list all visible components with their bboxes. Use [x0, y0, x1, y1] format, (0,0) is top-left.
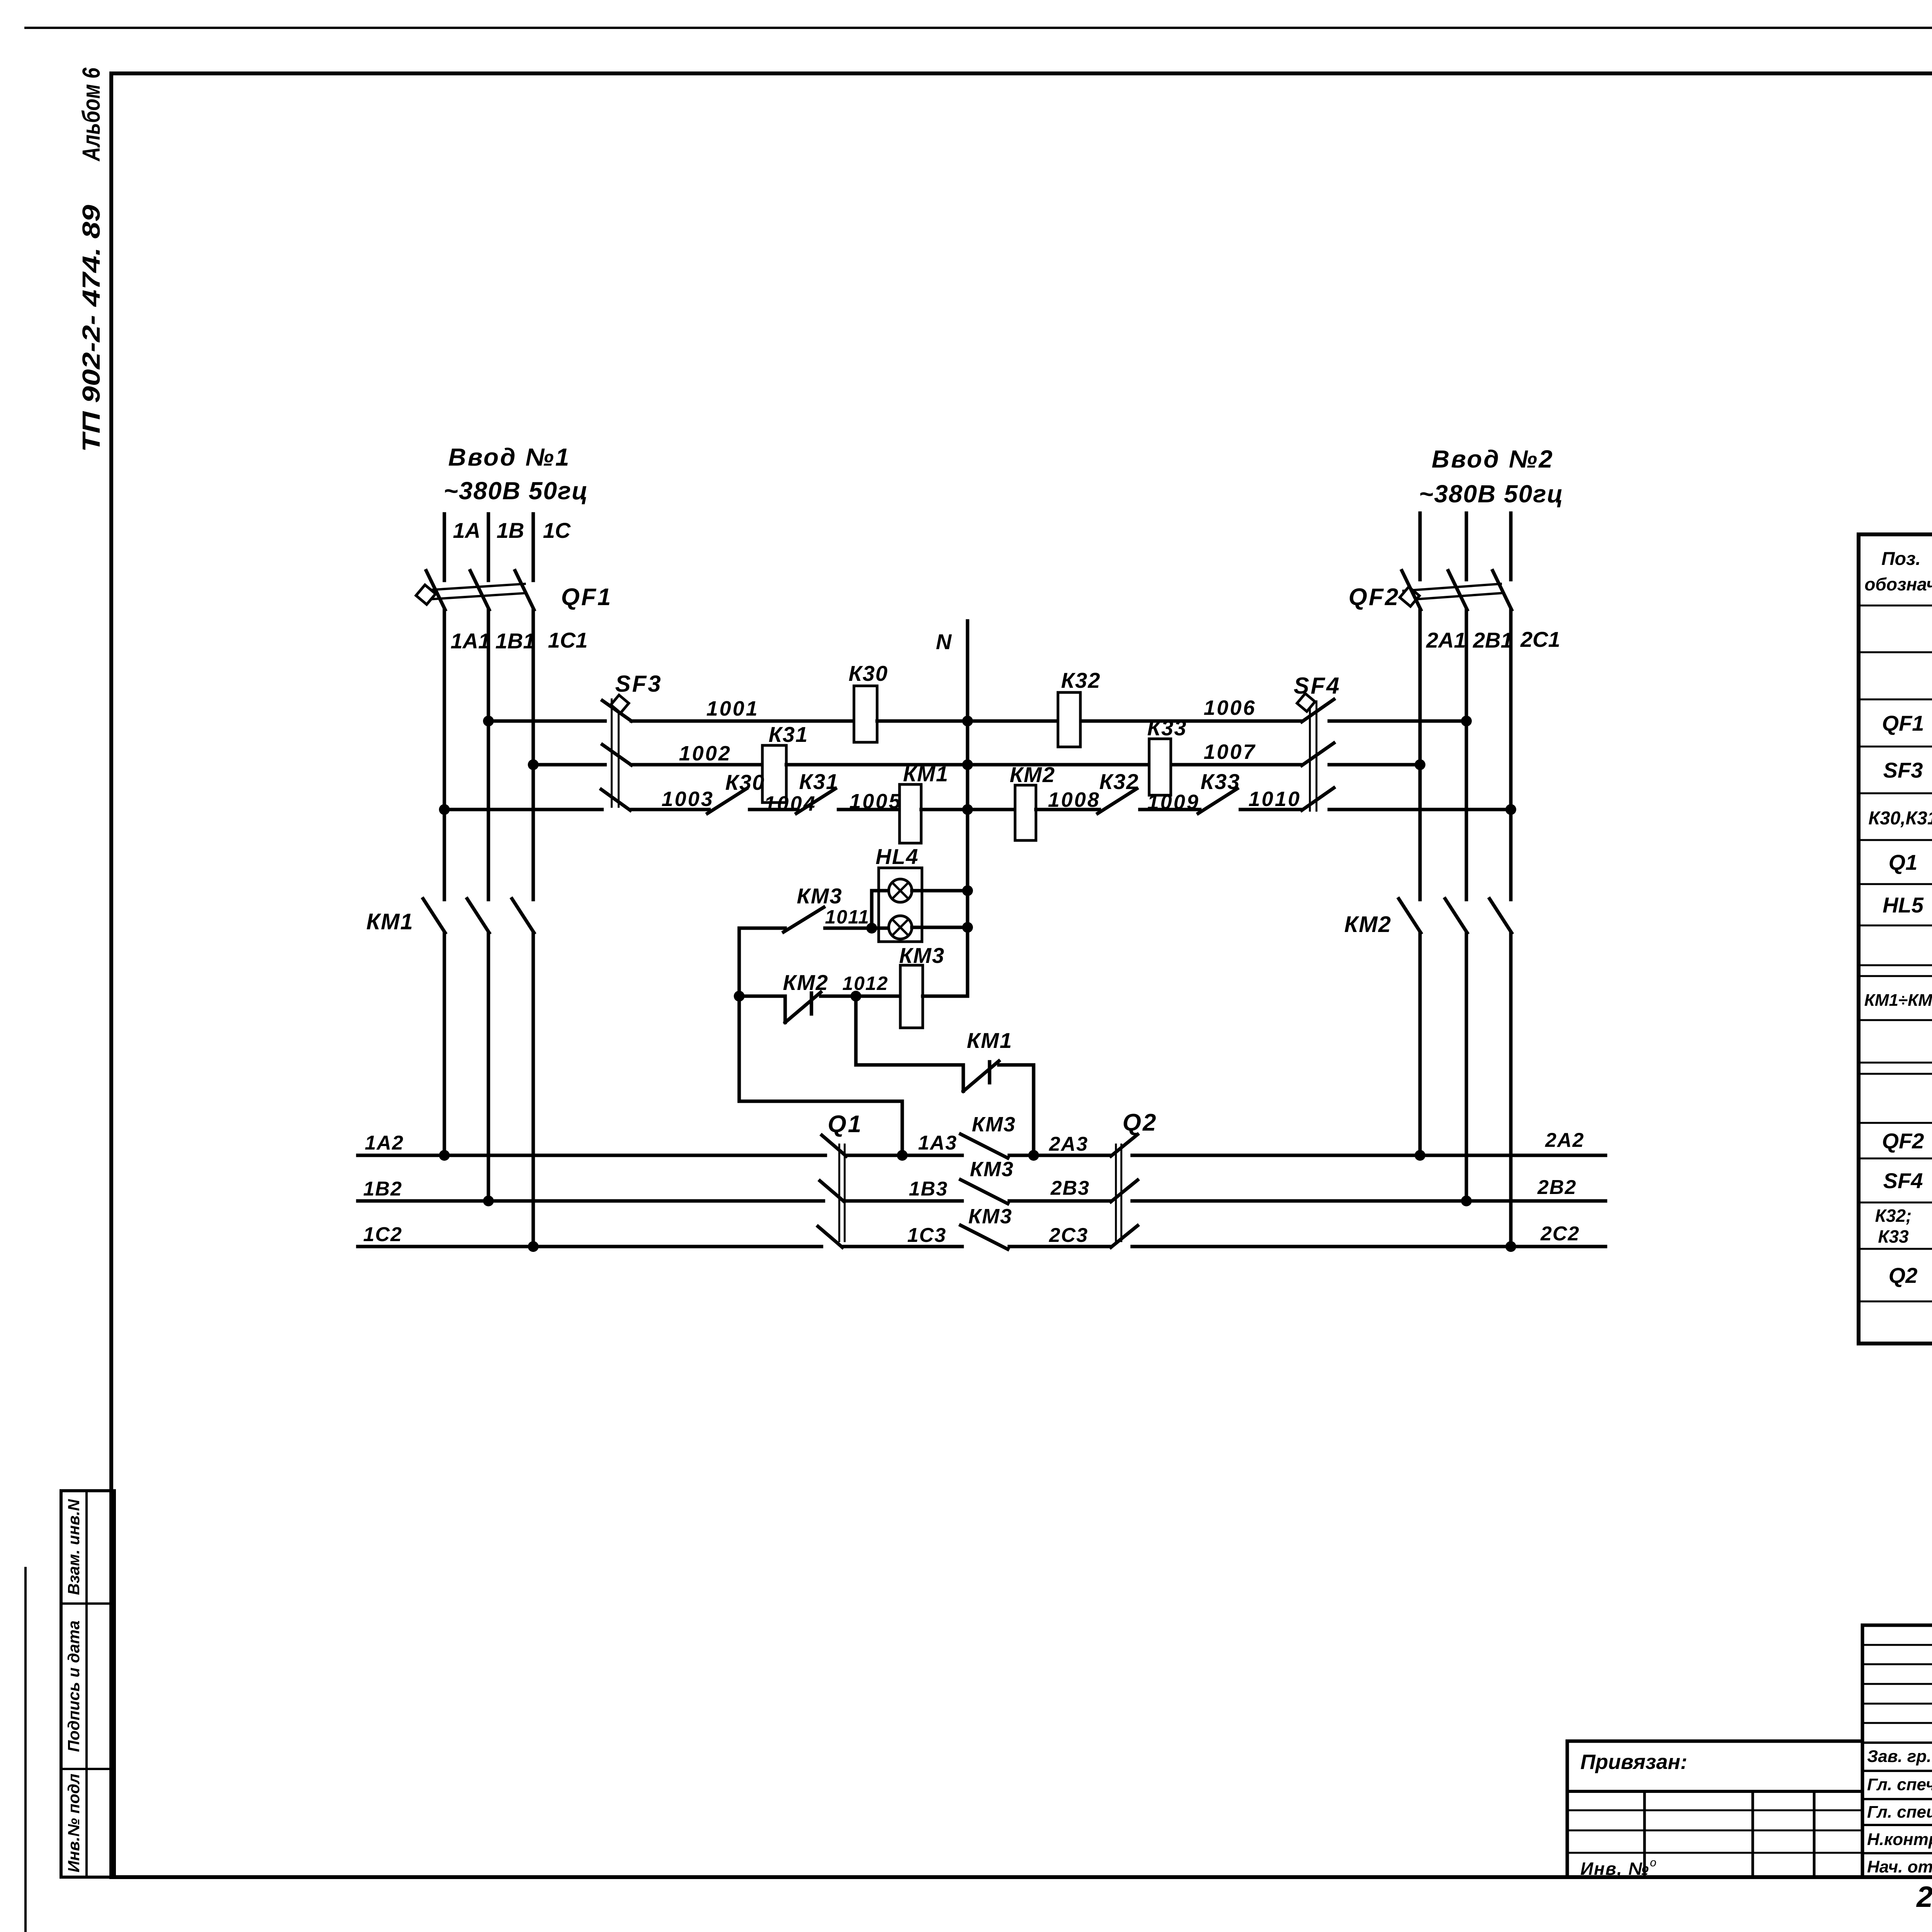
svg-text:КМ1÷КМ3: КМ1÷КМ3 — [1864, 991, 1932, 1010]
svg-text:КМ3: КМ3 — [899, 943, 945, 968]
svg-text:1В3: 1В3 — [909, 1178, 948, 1200]
svg-text:1А: 1А — [453, 518, 481, 543]
svg-text:2С3: 2С3 — [1049, 1224, 1088, 1247]
svg-text:N: N — [936, 629, 952, 654]
svg-text:Q2: Q2 — [1122, 1109, 1158, 1136]
svg-text:2С1: 2С1 — [1520, 627, 1560, 651]
svg-text:2В1: 2В1 — [1473, 628, 1513, 652]
svg-text:1002: 1002 — [679, 742, 731, 765]
svg-text:1А1: 1А1 — [451, 629, 490, 653]
svg-text:~380В 50гц: ~380В 50гц — [1419, 480, 1564, 508]
svg-text:Зав. гр.: Зав. гр. — [1867, 1747, 1931, 1766]
svg-text:1011: 1011 — [825, 906, 870, 928]
svg-text:Взам. инв.N: Взам. инв.N — [65, 1498, 83, 1595]
svg-text:1В1: 1В1 — [495, 629, 535, 653]
svg-text:1010: 1010 — [1248, 787, 1301, 811]
svg-text:1003: 1003 — [662, 787, 714, 811]
svg-text:К33: К33 — [1201, 769, 1240, 794]
svg-text:Ввод №1: Ввод №1 — [448, 443, 571, 471]
svg-text:1С: 1С — [543, 518, 571, 543]
svg-text:КМ2: КМ2 — [783, 970, 828, 995]
svg-text:К30: К30 — [849, 661, 888, 685]
svg-text:Привязан:: Привязан: — [1580, 1750, 1687, 1774]
svg-text:Поз.: Поз. — [1881, 549, 1921, 569]
svg-text:К33: К33 — [1878, 1226, 1909, 1247]
svg-text:Н.контр.: Н.контр. — [1867, 1830, 1932, 1849]
svg-text:К32: К32 — [1061, 668, 1101, 692]
svg-text:Инв.№ подл: Инв.№ подл — [65, 1774, 83, 1872]
svg-text:КМ3: КМ3 — [970, 1158, 1014, 1181]
svg-text:КМ2: КМ2 — [1344, 912, 1391, 937]
svg-text:К32;: К32; — [1875, 1206, 1912, 1226]
svg-text:ТП 902-2- 474. 89: ТП 902-2- 474. 89 — [77, 204, 105, 452]
svg-text:Ввод №2: Ввод №2 — [1432, 445, 1554, 473]
svg-text:1А2: 1А2 — [365, 1132, 404, 1154]
svg-text:23985-06: 23985-06 — [1916, 1881, 1932, 1913]
svg-text:КМ1: КМ1 — [366, 909, 413, 934]
svg-text:1В2: 1В2 — [363, 1178, 402, 1200]
svg-text:К31: К31 — [799, 769, 839, 794]
svg-text:К33: К33 — [1147, 716, 1187, 740]
svg-text:HL5: HL5 — [1883, 893, 1924, 917]
svg-text:SF4: SF4 — [1883, 1168, 1923, 1193]
svg-text:SF4: SF4 — [1294, 673, 1341, 699]
svg-text:1В: 1В — [497, 518, 524, 543]
svg-text:КМ2: КМ2 — [1010, 762, 1055, 787]
svg-text:QF1: QF1 — [1882, 711, 1924, 735]
svg-text:1004: 1004 — [764, 792, 816, 815]
svg-text:1001: 1001 — [706, 697, 759, 720]
svg-text:HL4: HL4 — [876, 844, 919, 869]
svg-text:Q2: Q2 — [1889, 1263, 1918, 1287]
svg-text:о: о — [1650, 1856, 1656, 1869]
svg-text:~380В 50гц: ~380В 50гц — [444, 477, 588, 505]
svg-text:Нач. отд.: Нач. отд. — [1867, 1857, 1932, 1876]
svg-text:2А3: 2А3 — [1049, 1133, 1088, 1155]
svg-text:Q1: Q1 — [828, 1111, 863, 1138]
svg-text:КМ3: КМ3 — [968, 1205, 1012, 1228]
svg-text:1А3: 1А3 — [918, 1132, 957, 1154]
svg-text:1009: 1009 — [1147, 791, 1200, 814]
svg-text:SF3: SF3 — [1883, 758, 1923, 782]
svg-text:Q1: Q1 — [1889, 850, 1918, 874]
svg-text:КМ3: КМ3 — [972, 1113, 1016, 1136]
svg-text:1С3: 1С3 — [907, 1224, 946, 1247]
svg-text:2С2: 2С2 — [1540, 1223, 1580, 1245]
svg-text:КМ3: КМ3 — [797, 884, 842, 908]
svg-text:SF3: SF3 — [615, 671, 662, 697]
svg-text:Гл. спец.: Гл. спец. — [1867, 1803, 1932, 1821]
svg-text:2В2: 2В2 — [1537, 1176, 1577, 1199]
svg-text:обознач.: обознач. — [1864, 574, 1932, 594]
svg-text:2А1: 2А1 — [1426, 628, 1466, 652]
svg-text:Инв, №: Инв, № — [1580, 1859, 1650, 1879]
svg-text:Подпись и дата: Подпись и дата — [65, 1621, 83, 1752]
svg-text:К32: К32 — [1099, 769, 1139, 794]
svg-text:КМ1: КМ1 — [903, 762, 949, 786]
svg-text:QF2: QF2 — [1349, 584, 1400, 611]
svg-text:К31: К31 — [769, 722, 808, 747]
svg-text:1007: 1007 — [1204, 740, 1256, 764]
svg-text:1012: 1012 — [842, 973, 888, 994]
svg-text:1С1: 1С1 — [548, 628, 588, 652]
svg-text:К30: К30 — [725, 770, 765, 794]
svg-text:К30,К31: К30,К31 — [1868, 808, 1932, 829]
svg-text:2А2: 2А2 — [1545, 1129, 1584, 1151]
svg-text:2В3: 2В3 — [1050, 1177, 1090, 1199]
svg-text:QF1: QF1 — [561, 584, 612, 611]
svg-text:КМ1: КМ1 — [967, 1028, 1012, 1053]
svg-text:1005: 1005 — [849, 790, 902, 813]
svg-text:1С2: 1С2 — [363, 1223, 402, 1246]
svg-text:Гл. спеч: Гл. спеч — [1867, 1775, 1932, 1794]
svg-text:QF2: QF2 — [1882, 1129, 1924, 1153]
svg-text:Альбом 6: Альбом 6 — [77, 68, 105, 162]
svg-text:1008: 1008 — [1048, 788, 1100, 811]
svg-text:1006: 1006 — [1204, 696, 1256, 719]
